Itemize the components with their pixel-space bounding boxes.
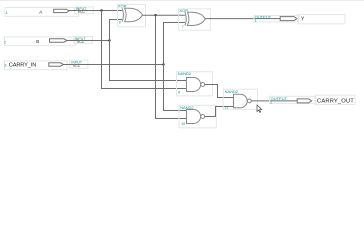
svg-text:CARRY_OUT: CARRY_OUT: [317, 99, 354, 105]
wire XOR1 output to XOR2 top input: [142, 14, 185, 16]
svg-text:B: B: [36, 39, 39, 44]
svg-text:OUTPUT: OUTPUT: [255, 15, 272, 20]
wire NAND1 output to NAND3 top input: [205, 85, 234, 98]
svg-text:7: 7: [182, 25, 184, 29]
svg-text:Y: Y: [301, 16, 305, 22]
input pin CARRY_IN: [4, 60, 88, 70]
NAND gate inst10: [179, 105, 216, 128]
svg-text:CARRY_IN: CARRY_IN: [9, 62, 36, 68]
svg-text:NAND2: NAND2: [178, 71, 192, 76]
wire XOR1 output to NAND2 bottom input: [156, 15, 187, 118]
svg-text:10: 10: [181, 122, 185, 126]
svg-text:XOR: XOR: [179, 8, 188, 13]
svg-text:9: 9: [119, 20, 121, 24]
wire NAND2 output to NAND3 bottom input: [205, 107, 234, 117]
wire CARRY_IN to XOR2 bottom input: [164, 23, 186, 65]
junction CARRY_IN: [162, 63, 164, 65]
wire B to NAND1 top input: [110, 41, 187, 81]
svg-text:NAND2: NAND2: [225, 89, 239, 94]
input pin A: [5, 7, 93, 16]
svg-text:1: 1: [6, 10, 9, 15]
wire A to XOR1 top input: [69, 10, 123, 12]
svg-text:A: A: [39, 9, 43, 14]
svg-text:2: 2: [4, 39, 7, 44]
svg-text:11: 11: [224, 105, 228, 109]
input pin B: [4, 37, 93, 46]
junction A: [100, 9, 102, 11]
wire CARRY_IN to junction: [64, 64, 164, 66]
svg-text:1: 1: [255, 19, 257, 23]
junction B: [108, 39, 110, 41]
output pin Y: [254, 15, 345, 24]
junction XOR1 output: [154, 14, 156, 16]
XOR gate inst7: [179, 8, 211, 30]
output pin CARRY_OUT: [270, 95, 356, 104]
wire CARRY_IN to NAND2 top input: [164, 65, 187, 111]
wire B to XOR1 bottom input: [110, 20, 123, 41]
NAND gate inst8: [177, 71, 213, 96]
XOR gate inst9: [117, 4, 145, 27]
svg-text:OUTPUT: OUTPUT: [271, 96, 288, 101]
svg-text:8: 8: [178, 91, 180, 95]
NAND gate inst11: [223, 89, 257, 110]
svg-text:2: 2: [270, 100, 272, 104]
svg-text:3: 3: [4, 62, 7, 67]
net Y : wire XOR2 output to pin Y: [205, 18, 280, 20]
wire A to NAND1 bottom input: [102, 11, 187, 89]
wire B to junction: [67, 40, 109, 42]
net CARRY_OUT : wire NAND3 output to pin CARRY_OUT: [251, 100, 297, 102]
mouse cursor: [257, 105, 262, 112]
